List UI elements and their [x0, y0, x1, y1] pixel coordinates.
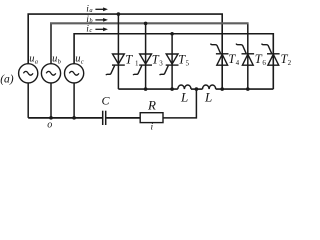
svg-text:3: 3 — [159, 60, 163, 68]
svg-text:L: L — [204, 89, 212, 104]
svg-text:R: R — [147, 98, 156, 113]
svg-text:u: u — [29, 54, 34, 65]
svg-text:a: a — [89, 7, 92, 14]
svg-text:L: L — [180, 89, 188, 104]
svg-text:a: a — [35, 59, 38, 66]
svg-text:5: 5 — [186, 60, 190, 68]
svg-text:u: u — [52, 54, 57, 65]
svg-text:u: u — [75, 54, 80, 65]
svg-text:c: c — [89, 27, 92, 34]
svg-text:6: 6 — [262, 59, 266, 67]
svg-text:o: o — [47, 119, 52, 130]
svg-text:b: b — [58, 59, 62, 66]
svg-text:C: C — [102, 93, 111, 107]
svg-text:1: 1 — [135, 60, 139, 68]
svg-text:i: i — [151, 123, 154, 133]
svg-text:T: T — [125, 52, 133, 66]
svg-text:2: 2 — [288, 59, 291, 67]
svg-text:4: 4 — [236, 59, 240, 67]
svg-text:c: c — [81, 59, 84, 66]
svg-text:(a): (a) — [0, 73, 14, 85]
